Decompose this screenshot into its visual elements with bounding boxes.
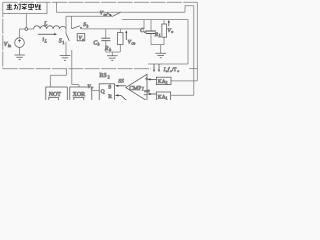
ground below S1 [60,56,71,61]
svg-text:b: b [98,43,100,47]
svg-text:1: 1 [62,40,64,45]
svg-text:2: 2 [166,81,168,85]
output bottom rail [151,44,164,46]
svg-text:R: R [104,46,109,52]
output voltage arrow Vo [168,20,170,26]
svg-text:sw: sw [104,13,108,17]
svg-text:/T: /T [172,68,176,73]
svg-text:L: L [43,21,48,28]
svg-text:RS: RS [99,73,106,79]
wire node B up (to Vsw switch wire) [65,16,67,29]
ground below Vin [19,47,21,55]
wire branch down to Sb pivot [71,16,73,29]
gate label box Vg [77,34,85,42]
NOT gate box [46,87,68,101]
switch lever (Vsw switch) [112,12,121,17]
RS flip-flop RS2 box [99,84,114,101]
voltage arrow VCb [125,30,127,40]
svg-text:Cb: Cb [131,42,135,46]
svg-text:1: 1 [166,97,168,100]
load resistor RL [163,20,165,24]
svg-text:b: b [87,24,89,28]
svg-text:Q: Q [101,89,105,95]
wire Vin top to node [20,29,25,38]
svg-text:S: S [59,38,62,44]
svg-text:o: o [171,30,173,34]
wire KA1 to right vertical [171,94,194,96]
gain block KA1 [156,92,170,101]
feedback wire W3 (top) [57,2,194,12]
gate wire to NOT (crosses border) [50,69,66,87]
wire CMP out to S input [115,85,126,87]
sample arrows below border [153,64,160,72]
ground below RL [160,45,162,54]
svg-text:F: F [90,86,94,90]
resistor Rb [119,29,121,33]
svg-text:o: o [177,69,179,73]
svg-text:o: o [144,30,146,34]
junction dot at Sb contact [80,27,82,29]
svg-text:b: b [109,48,111,52]
wire XOR to RS flip-flop Q [92,89,99,91]
svg-text:S: S [108,84,111,90]
wire switch to output rail [122,19,188,21]
sense wire y63 [148,63,188,65]
rail end vertical [187,20,189,64]
svg-text:L: L [44,39,47,43]
small box below NOT [49,97,59,101]
wire KA2 to CMP+ [147,78,156,80]
voltage source Vin [15,38,25,48]
gain block KA2 [156,77,171,84]
ground below Cb/Rb [111,52,113,56]
capacitor Cb [105,29,107,38]
XOR gate box [70,87,92,101]
current arrow iL [38,33,57,35]
comparator CMP [126,74,147,101]
svg-text:KA: KA [158,95,166,100]
arrow to switch pivot [107,13,112,17]
text 主功率电路 (stylized CJK glyphs) [6,4,41,10]
svg-text:KA: KA [158,79,166,85]
main power circuit dashed box 主功率电路 [3,2,198,68]
wire KA2 to right vertical [171,80,197,82]
switch S1 (node B to ground) [65,29,67,34]
svg-text:2: 2 [108,74,110,79]
svg-text:ref2: ref2 [144,89,150,93]
wire KA1 to CMP- [147,93,156,95]
wire node to inductor [28,28,34,30]
svg-text:R: R [108,94,112,100]
right border / sense wire [196,2,198,81]
right feedback vertical (to KA1 row) [193,6,195,96]
gate wire to XOR (crosses border) [72,50,79,87]
svg-text:L: L [158,34,161,38]
node (junction circle) [25,28,28,31]
main rail after Sb [82,28,140,30]
wire into R input [115,94,127,100]
wire W2 to switch [66,15,112,17]
svg-text:−: − [144,93,148,99]
svg-text:in: in [8,44,11,48]
wire Cb-Rb bottom rail [106,51,121,53]
svg-text:SS: SS [118,79,124,85]
output capacitor C [150,20,152,31]
inductor L [34,26,66,29]
switch Sb on main rail [72,26,80,29]
svg-text:CMP: CMP [129,86,141,92]
wire node up to label box [25,14,27,28]
small box below XOR [74,97,84,101]
label box for 主功率电路 [3,2,47,13]
